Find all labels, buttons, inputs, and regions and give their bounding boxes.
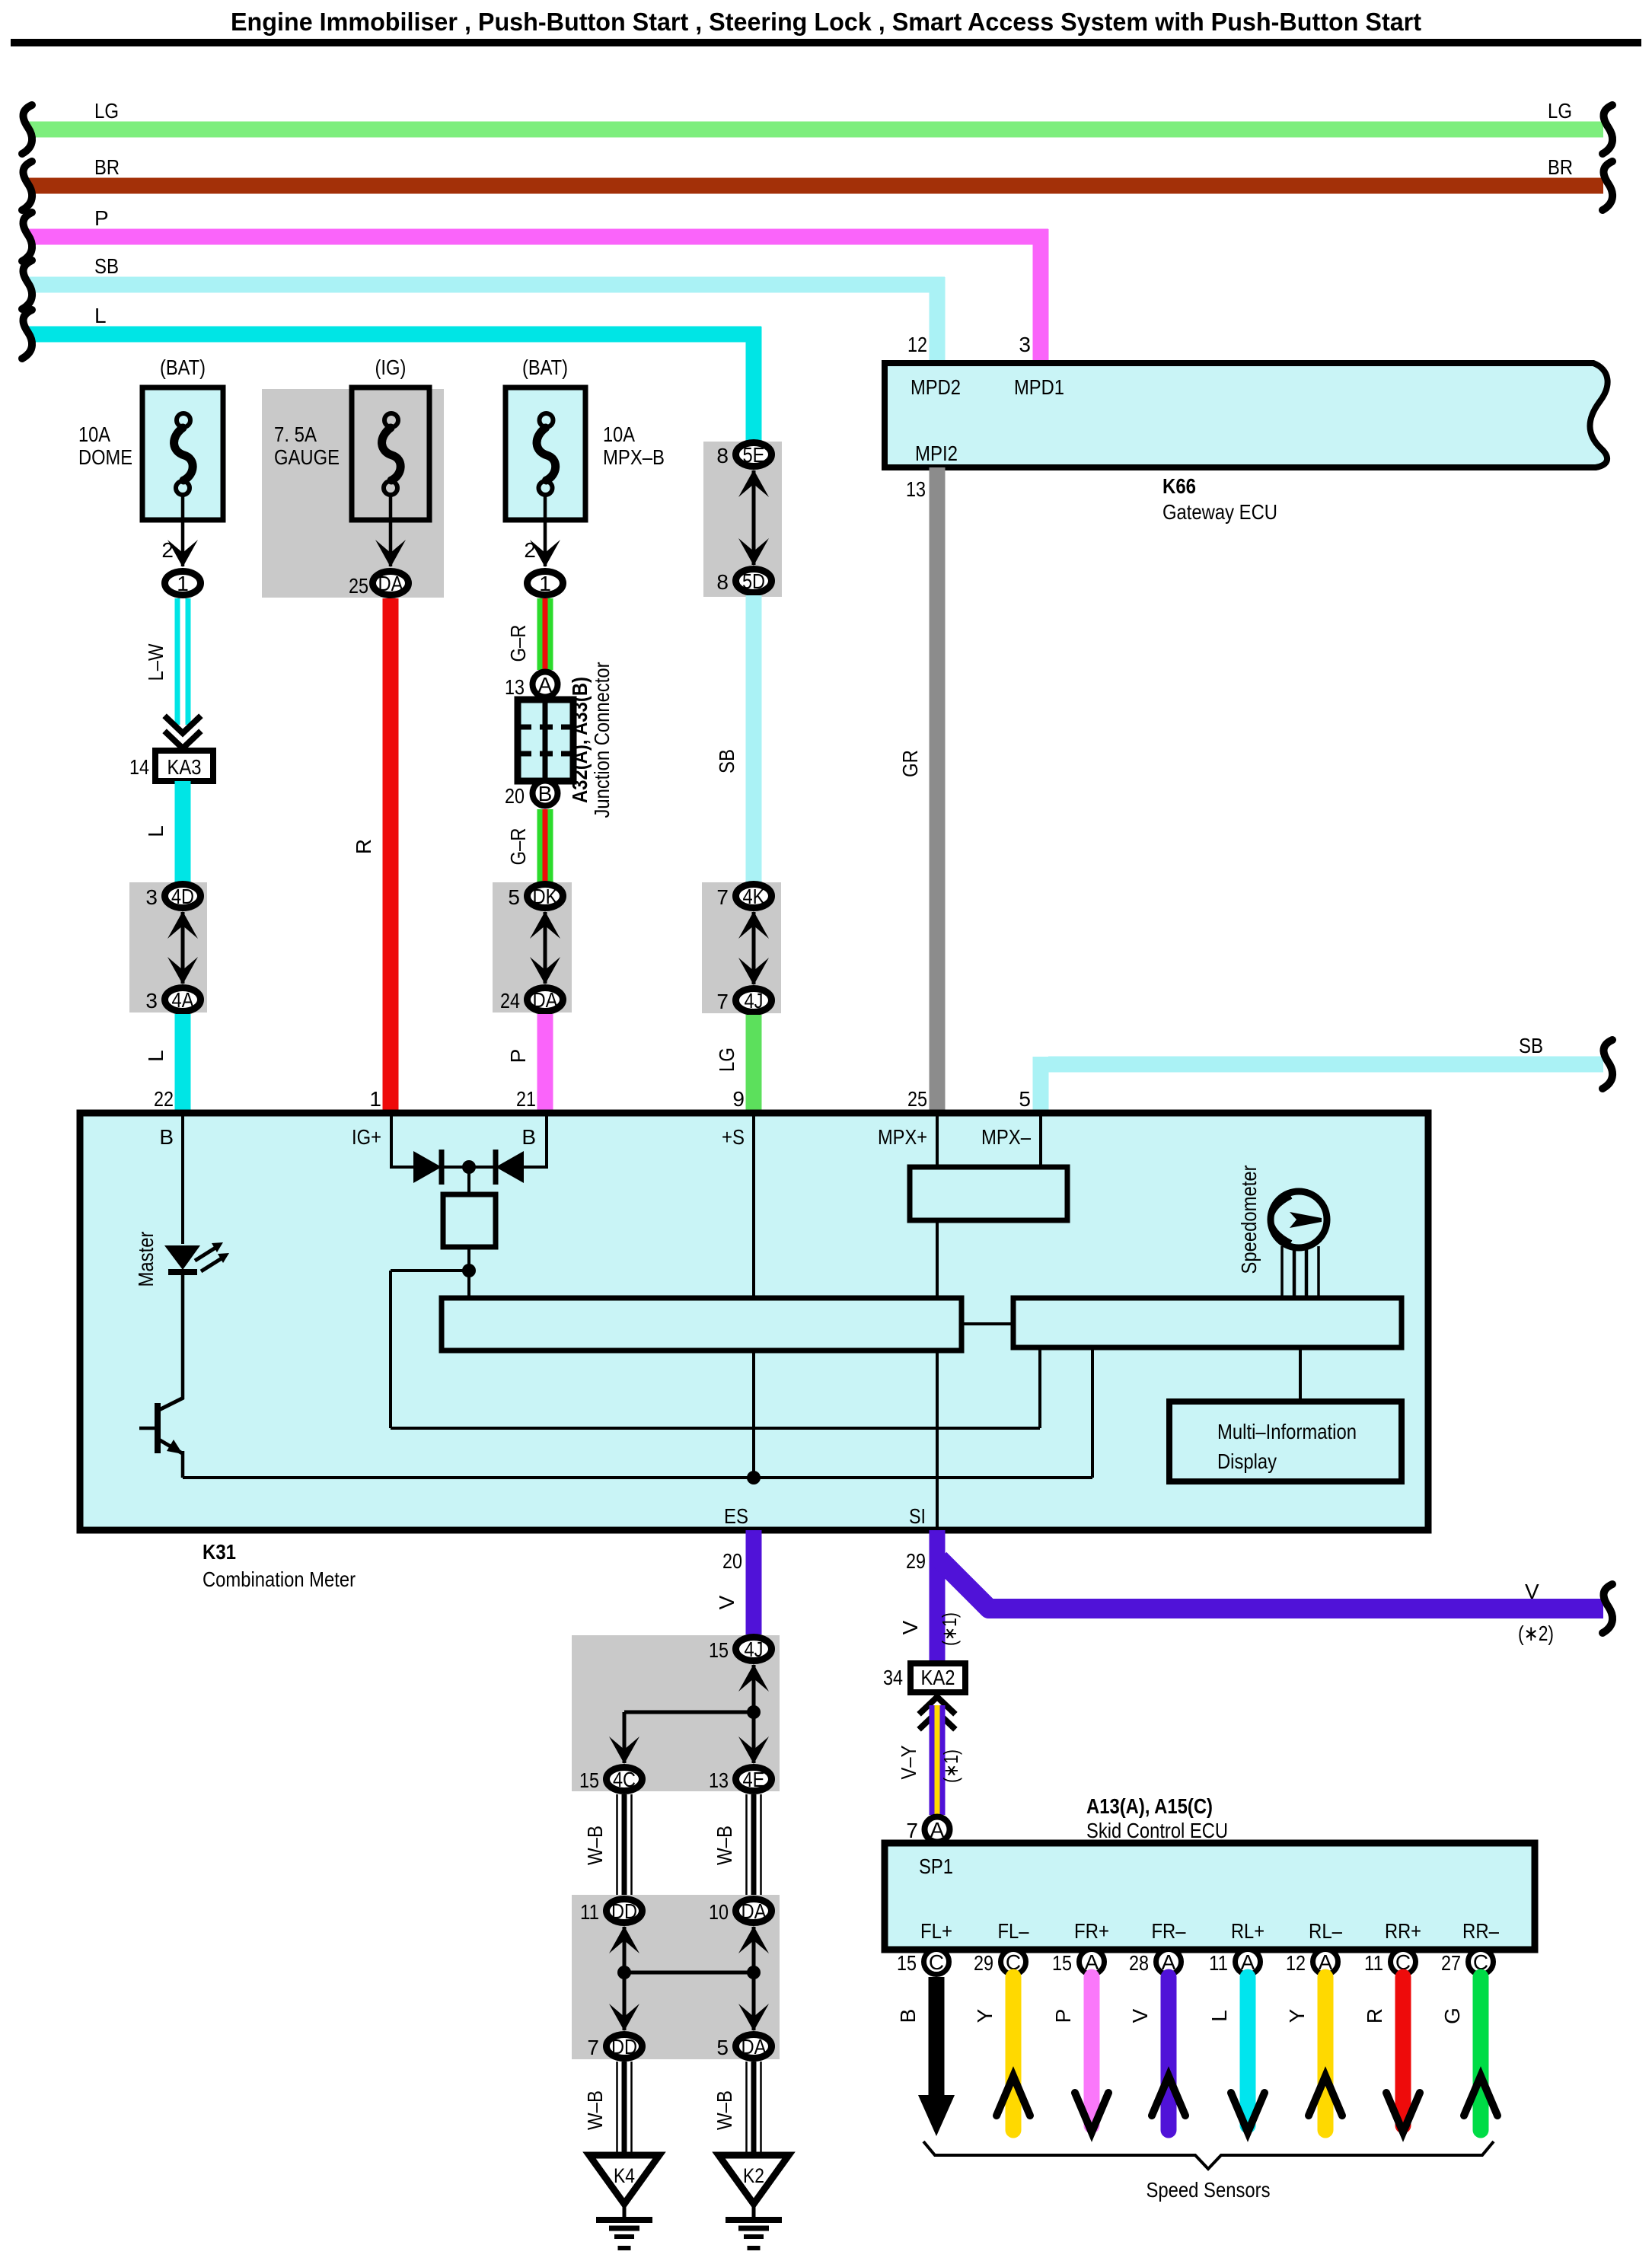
svg-text:24: 24 — [500, 989, 520, 1013]
svg-text:K2: K2 — [743, 2164, 764, 2187]
svg-text:FR+: FR+ — [1074, 1919, 1109, 1943]
gray background patch behind GAUGE fuse — [262, 389, 444, 598]
internal wire from pin B(21) down — [545, 1116, 548, 1169]
svg-text:4J: 4J — [745, 989, 764, 1013]
svg-text:A32(A), A33(B): A32(A), A33(B) — [568, 677, 592, 803]
svg-text:Y: Y — [973, 2008, 997, 2023]
svg-text:A: A — [930, 1818, 945, 1842]
wire L vertical drop to connector 5E — [746, 327, 762, 442]
connector 1 below DOME fuse — [165, 572, 201, 595]
svg-text:7: 7 — [587, 2036, 599, 2059]
svg-text:14: 14 — [129, 755, 149, 779]
svg-text:P: P — [506, 1049, 530, 1064]
svg-text:DA: DA — [741, 1899, 767, 1923]
transistor Q (meter) — [155, 1403, 161, 1453]
svg-text:13: 13 — [709, 1768, 729, 1792]
svg-text:DA: DA — [533, 988, 558, 1012]
svg-text:4C: 4C — [613, 1768, 636, 1791]
svg-text:BR: BR — [94, 155, 120, 179]
internal wire MPX- down to transceiver — [1039, 1116, 1042, 1167]
svg-text:DA: DA — [741, 2035, 767, 2058]
svg-text:Combination Meter: Combination Meter — [203, 1567, 356, 1591]
branch node below 4J — [747, 1705, 761, 1719]
svg-text:R: R — [1363, 2008, 1386, 2023]
wire SB from 5D to connector 4K — [746, 595, 762, 883]
connector pair 4D/4A gray box — [129, 882, 207, 1013]
svg-text:15: 15 — [1052, 1951, 1072, 1975]
cross link with nodes — [624, 1971, 754, 1975]
break symbol right of BR bus — [1603, 161, 1612, 210]
svg-text:P: P — [94, 206, 109, 230]
svg-text:G–R: G–R — [506, 828, 530, 866]
wire Y speed sensor — [1318, 1977, 1334, 2130]
speedometer leads — [1280, 1246, 1284, 1298]
svg-text:BR: BR — [1548, 155, 1573, 179]
svg-text:(∗2): (∗2) — [1518, 1622, 1554, 1645]
diode D1 (from IG+) — [413, 1151, 442, 1183]
svg-text:MPD1: MPD1 — [1014, 375, 1064, 399]
resistor (box) inside meter — [443, 1194, 496, 1247]
Multi-Information Display box — [1169, 1402, 1402, 1481]
internal wire +S down to ES rail — [752, 1116, 755, 1478]
logic box 1 (long rectangle) — [442, 1298, 962, 1351]
svg-text:25: 25 — [907, 1087, 927, 1111]
wire node to left rail — [391, 1269, 469, 1272]
svg-text:P: P — [1051, 2009, 1075, 2023]
diode D2 (from B) — [496, 1151, 524, 1183]
svg-text:KA2: KA2 — [921, 1666, 955, 1689]
pin of GAUGE fuse — [389, 495, 393, 566]
wire G speed sensor — [1473, 1977, 1489, 2130]
svg-text:A13(A), A15(C): A13(A), A15(C) — [1086, 1794, 1213, 1818]
svg-text:SB: SB — [94, 254, 119, 278]
svg-text:K66: K66 — [1162, 474, 1196, 498]
svg-text:GAUGE: GAUGE — [274, 445, 340, 469]
junction arrows between 4D and 4A — [181, 912, 185, 984]
svg-text:DK: DK — [533, 885, 558, 908]
junction arrows between 5E and 5D — [752, 470, 756, 565]
MPX transceiver box — [910, 1167, 1067, 1220]
break symbol left of L bus — [22, 310, 32, 359]
svg-text:B: B — [896, 2009, 920, 2023]
svg-text:5E: 5E — [743, 443, 765, 467]
svg-text:5D: 5D — [742, 569, 765, 593]
svg-text:29: 29 — [974, 1951, 993, 1975]
svg-text:4E: 4E — [743, 1768, 765, 1791]
svg-text:Skid Control ECU: Skid Control ECU — [1086, 1819, 1228, 1842]
svg-text:(BAT): (BAT) — [160, 356, 206, 379]
break symbol right of V wire — [1603, 1584, 1612, 1633]
svg-text:RL+: RL+ — [1231, 1919, 1265, 1943]
svg-text:IG+: IG+ — [352, 1125, 381, 1149]
svg-text:L: L — [144, 825, 167, 837]
pin 2 of MPX-B fuse — [544, 495, 547, 566]
wire SI vertical from transceiver to pin 29 — [936, 1220, 939, 1527]
internal wire from pin 22 to LED — [181, 1116, 184, 1244]
svg-text:MPD2: MPD2 — [911, 375, 961, 399]
svg-text:8: 8 — [716, 570, 729, 594]
svg-text:SP1: SP1 — [919, 1854, 953, 1878]
wire W-B from DA to ground K2 — [745, 2062, 748, 2155]
svg-text:FR–: FR– — [1152, 1919, 1186, 1943]
svg-text:28: 28 — [1129, 1951, 1149, 1975]
svg-text:C: C — [929, 1950, 944, 1974]
svg-text:10A: 10A — [603, 423, 635, 446]
svg-text:(BAT): (BAT) — [522, 356, 568, 379]
svg-text:L–W: L–W — [144, 643, 167, 681]
svg-text:DA: DA — [378, 572, 403, 595]
ES horizontal rail — [183, 1476, 1092, 1479]
svg-text:22: 22 — [154, 1087, 174, 1111]
Combination Meter K31 box — [80, 1113, 1428, 1530]
svg-text:3: 3 — [1019, 333, 1031, 356]
svg-text:LG: LG — [715, 1048, 738, 1072]
wire W-B from DD to ground K4 — [616, 2062, 618, 2155]
svg-text:FL+: FL+ — [920, 1919, 952, 1943]
svg-text:4D: 4D — [171, 885, 194, 908]
svg-text:34: 34 — [883, 1666, 903, 1689]
svg-text:13: 13 — [906, 477, 926, 501]
svg-text:1: 1 — [539, 572, 551, 595]
svg-text:12: 12 — [1286, 1951, 1306, 1975]
wire Y speed sensor — [1006, 1977, 1022, 2130]
svg-text:L: L — [94, 304, 107, 327]
wire L from 4A to combination meter pin 22 — [175, 1014, 191, 1113]
svg-text:DOME: DOME — [78, 445, 132, 469]
wire resistor to node — [467, 1247, 470, 1271]
connector pair DK/DA gray box — [493, 882, 572, 1013]
wire P from DA to meter pin 21 — [537, 1014, 553, 1113]
junction arrows between DK and DA — [544, 912, 547, 984]
break symbol right of LG bus — [1603, 105, 1612, 154]
connector pair 4K/4J gray box — [702, 882, 781, 1013]
svg-text:7. 5A: 7. 5A — [274, 423, 317, 446]
link between logic boxes — [962, 1322, 1013, 1325]
arrows into 4C and 4E — [623, 1712, 627, 1763]
svg-text:(IG): (IG) — [375, 356, 407, 379]
svg-text:15: 15 — [709, 1638, 729, 1662]
svg-text:(∗1): (∗1) — [939, 1749, 962, 1783]
svg-text:A: A — [538, 673, 553, 697]
connector 1 below MPX-B fuse — [528, 572, 563, 595]
svg-text:L: L — [144, 1050, 167, 1062]
double chevron arrow out of KA2 — [921, 1697, 953, 1712]
break symbol left of LG bus — [22, 105, 32, 154]
wire G-R from B to connector DK — [537, 809, 553, 883]
svg-text:5: 5 — [716, 2036, 729, 2059]
svg-text:7: 7 — [906, 1819, 918, 1842]
svg-text:8: 8 — [716, 444, 729, 467]
wire V-Y from KA2 to skid ECU pin 7 A — [930, 1705, 946, 1815]
wire R from 25 DA to meter pin 1 — [383, 598, 399, 1113]
svg-text:V: V — [1128, 2008, 1152, 2023]
svg-text:10: 10 — [709, 1900, 729, 1924]
svg-text:21: 21 — [516, 1087, 536, 1111]
svg-text:G–R: G–R — [506, 625, 530, 662]
svg-text:V–Y: V–Y — [897, 1745, 920, 1779]
svg-text:MPX–B: MPX–B — [603, 445, 665, 469]
svg-text:3: 3 — [145, 885, 158, 909]
svg-text:LG: LG — [1548, 99, 1572, 123]
svg-text:4A: 4A — [172, 988, 194, 1012]
svg-text:11: 11 — [1209, 1951, 1228, 1975]
Gateway ECU K66 box — [885, 363, 1608, 467]
junction connector A32(A), A33(B) grid box — [518, 700, 573, 781]
wire lower horizontal rail — [391, 1427, 1040, 1430]
svg-text:V: V — [715, 1595, 738, 1609]
wire SB bus horizontal — [29, 277, 945, 293]
svg-text:20: 20 — [505, 784, 525, 808]
svg-text:27: 27 — [1441, 1951, 1461, 1975]
svg-text:B: B — [521, 1125, 536, 1149]
LED light arrows — [195, 1248, 215, 1261]
svg-text:SB: SB — [715, 749, 738, 773]
wire W-B from 4C to DD — [616, 1794, 618, 1896]
connector pair 5E/5D gray box — [703, 442, 782, 597]
svg-text:L: L — [1207, 2010, 1231, 2022]
svg-text:11: 11 — [1364, 1951, 1383, 1975]
svg-text:K4: K4 — [614, 2164, 635, 2187]
wire between diodes — [391, 1166, 547, 1169]
svg-text:W–B: W–B — [583, 1826, 607, 1865]
svg-text:+S: +S — [722, 1125, 745, 1149]
wire SB from right break to meter pin 5 — [1048, 1057, 1603, 1073]
svg-text:W–B: W–B — [713, 1826, 736, 1865]
wire LG from 4J to meter pin 9 — [746, 1015, 762, 1113]
wire P vertical drop to Gateway ECU pin 3 — [1033, 229, 1049, 366]
logic box 2 (long rectangle) — [1013, 1298, 1402, 1347]
ground K2 — [719, 2155, 789, 2204]
break symbol right of SB wire — [1603, 1040, 1612, 1089]
junction arrows between 4K and 4J — [752, 912, 756, 984]
svg-text:R: R — [352, 839, 375, 854]
svg-text:3: 3 — [145, 989, 158, 1013]
wire GR from MPI2 pin 13 to meter pin 25 — [930, 467, 946, 1113]
svg-text:4K: 4K — [743, 885, 765, 908]
svg-text:RR+: RR+ — [1385, 1919, 1421, 1943]
node between diodes — [462, 1160, 476, 1174]
svg-text:15: 15 — [897, 1951, 917, 1975]
svg-text:Speed Sensors: Speed Sensors — [1147, 2178, 1271, 2202]
svg-text:V: V — [898, 1620, 922, 1634]
svg-text:5: 5 — [1019, 1087, 1031, 1111]
wire G-R from connector 1 to junction connector A — [537, 598, 553, 670]
svg-text:7: 7 — [716, 990, 729, 1013]
svg-text:MPI2: MPI2 — [915, 442, 958, 465]
wire V from pin 29 down to KA2 — [930, 1530, 946, 1663]
LED Master indicator — [164, 1245, 200, 1270]
svg-text:B: B — [538, 782, 553, 805]
node on ES rail — [747, 1471, 761, 1484]
wire logic box 2 to MID — [1299, 1347, 1302, 1400]
svg-text:20: 20 — [722, 1549, 742, 1573]
brace for speed sensors — [923, 2141, 1494, 2169]
svg-text:Gateway ECU: Gateway ECU — [1162, 500, 1277, 524]
svg-text:7: 7 — [716, 885, 729, 909]
svg-text:SB: SB — [1519, 1034, 1543, 1057]
title underline rule — [11, 39, 1641, 46]
svg-text:ES: ES — [724, 1504, 748, 1528]
svg-text:4J: 4J — [745, 1638, 764, 1661]
arrows up into DD and DA — [623, 1927, 627, 1972]
node below resistor — [462, 1264, 476, 1277]
svg-text:15: 15 — [579, 1768, 599, 1792]
svg-text:V: V — [1525, 1580, 1539, 1603]
svg-text:LG: LG — [94, 99, 119, 123]
svg-text:RL–: RL– — [1309, 1919, 1342, 1943]
svg-text:Multi–Information: Multi–Information — [1217, 1420, 1357, 1443]
break symbol left of P bus — [22, 212, 32, 261]
svg-text:MPX–: MPX– — [981, 1125, 1031, 1149]
svg-text:GR: GR — [898, 750, 922, 777]
svg-text:1: 1 — [177, 572, 189, 595]
wire V branch diagonal to right — [939, 1559, 1603, 1609]
svg-text:Master: Master — [134, 1232, 158, 1287]
svg-text:Y: Y — [1285, 2008, 1309, 2023]
wire P bus horizontal — [29, 229, 1048, 245]
svg-text:RR–: RR– — [1462, 1919, 1499, 1943]
svg-text:13: 13 — [505, 675, 525, 699]
wire L bus horizontal — [29, 327, 761, 343]
svg-text:W–B: W–B — [583, 2090, 607, 2130]
wire L speed sensor — [1240, 1977, 1256, 2125]
speedometer gauge — [1271, 1191, 1327, 1248]
break symbol left of BR bus — [22, 161, 32, 210]
svg-text:(∗1): (∗1) — [938, 1612, 961, 1646]
svg-text:Engine Immobiliser , Push-Butt: Engine Immobiliser , Push-Button Start ,… — [231, 8, 1421, 36]
wire L from KA3 to connector 4D — [175, 781, 191, 883]
connector 15 4J arrow — [752, 1665, 756, 1712]
arrows down into lower DD and DA — [623, 1972, 627, 2030]
internal wire from pin IG+ down — [390, 1116, 393, 1169]
wire LG bus horizontal — [29, 122, 1603, 138]
svg-text:B: B — [159, 1125, 174, 1149]
svg-text:G: G — [1440, 2007, 1464, 2024]
svg-text:K31: K31 — [203, 1540, 236, 1564]
svg-text:25: 25 — [349, 574, 368, 598]
gray box: connector group 4J/4C/4E — [572, 1635, 780, 1791]
wire R speed sensor — [1395, 1977, 1411, 2125]
internal wire MPX+ down to transceiver — [936, 1116, 939, 1167]
svg-text:MPX+: MPX+ — [878, 1125, 927, 1149]
wire V from pin 20 to connector 4J — [746, 1530, 762, 1634]
svg-text:FL–: FL– — [998, 1919, 1029, 1943]
wire V speed sensor — [1161, 1977, 1177, 2130]
pin 2 of DOME fuse — [181, 495, 185, 566]
svg-text:11: 11 — [580, 1900, 599, 1924]
ground K4 — [589, 2155, 659, 2204]
wire SB vertical drop to Gateway ECU pin 12 — [930, 277, 946, 366]
svg-text:DD: DD — [611, 2035, 637, 2058]
wire logic box 2 to lower rail — [1038, 1347, 1041, 1428]
wire L-W from connector 1 to KA3 — [175, 598, 191, 725]
double chevron arrow into KA3 — [167, 733, 199, 748]
gray box: connector group DD/DA — [572, 1895, 780, 2059]
svg-text:W–B: W–B — [713, 2090, 736, 2130]
svg-text:Speedometer: Speedometer — [1237, 1166, 1261, 1274]
svg-text:Junction Connector: Junction Connector — [590, 662, 614, 818]
wire BR bus horizontal — [29, 178, 1603, 194]
svg-text:KA3: KA3 — [167, 755, 202, 779]
wire P speed sensor — [1084, 1977, 1100, 2125]
wire logic box 2 down to ES rail — [1091, 1347, 1094, 1478]
svg-text:2: 2 — [161, 538, 174, 562]
svg-text:SI: SI — [909, 1504, 926, 1528]
svg-text:9: 9 — [732, 1087, 745, 1111]
svg-text:2: 2 — [524, 538, 536, 562]
break symbol left of SB bus — [22, 260, 32, 309]
wire B speed sensor — [929, 1977, 945, 2099]
svg-text:1: 1 — [369, 1087, 381, 1111]
svg-text:29: 29 — [906, 1549, 926, 1573]
wire W-B from 4E to DA — [745, 1794, 748, 1896]
svg-text:DD: DD — [611, 1899, 637, 1923]
wire node down to logic box 1 — [467, 1271, 470, 1299]
svg-text:10A: 10A — [78, 423, 110, 446]
svg-text:Display: Display — [1217, 1449, 1277, 1473]
Skid Control ECU box — [885, 1843, 1535, 1950]
svg-text:12: 12 — [907, 333, 927, 356]
svg-text:5: 5 — [508, 885, 520, 909]
